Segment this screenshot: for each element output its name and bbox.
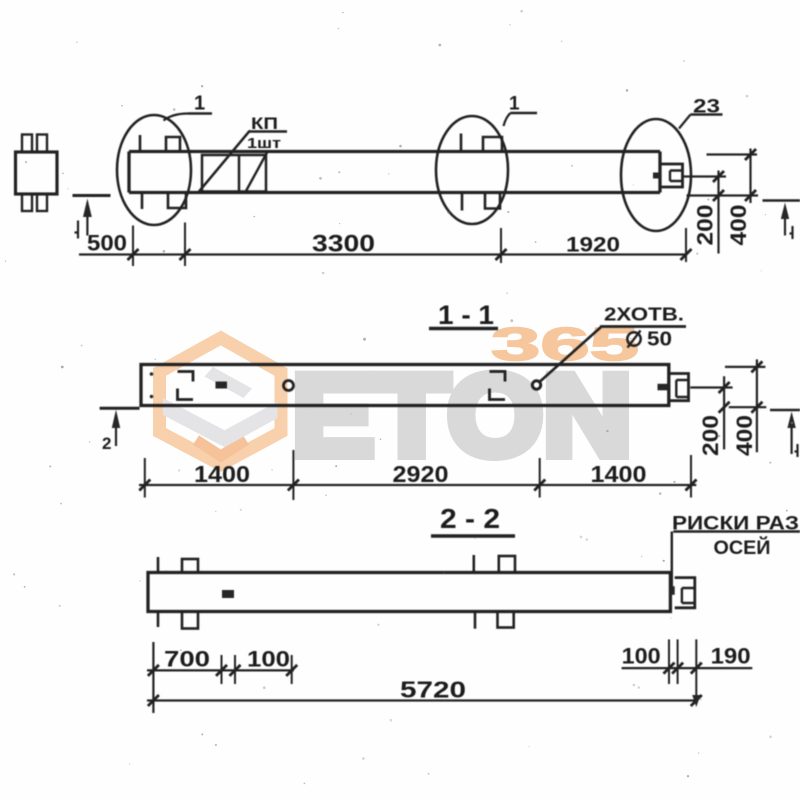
svg-text:2 - 2: 2 - 2 [440,503,500,534]
svg-text:700: 700 [164,647,210,672]
svg-text:РИСКИ РАЗ: РИСКИ РАЗ [672,514,799,535]
svg-text:23: 23 [693,97,720,118]
svg-text:5720: 5720 [400,677,466,703]
svg-text:1шт: 1шт [247,135,281,152]
svg-text:2: 2 [102,434,111,453]
svg-text:1 - 1: 1 - 1 [438,300,494,330]
svg-text:1400: 1400 [194,461,250,487]
svg-text:1920: 1920 [566,234,620,257]
svg-text:2ХОТВ.: 2ХОТВ. [604,305,684,325]
svg-text:400: 400 [726,205,751,246]
svg-text:1400: 1400 [591,461,647,487]
svg-text:1: 1 [509,94,520,115]
svg-text:2920: 2920 [393,461,449,487]
svg-text:3300: 3300 [312,231,375,258]
svg-text:ОСЕЙ: ОСЕЙ [714,537,771,559]
svg-text:500: 500 [87,231,127,256]
svg-text:50: 50 [647,329,672,351]
svg-text:ETON: ETON [292,352,632,480]
svg-text:190: 190 [711,644,751,669]
svg-text:100: 100 [247,647,290,672]
svg-text:КП: КП [251,114,278,133]
svg-text:200: 200 [693,205,718,246]
svg-text:400: 400 [732,415,757,456]
svg-text:100: 100 [622,644,661,669]
svg-text:1: 1 [194,93,205,115]
